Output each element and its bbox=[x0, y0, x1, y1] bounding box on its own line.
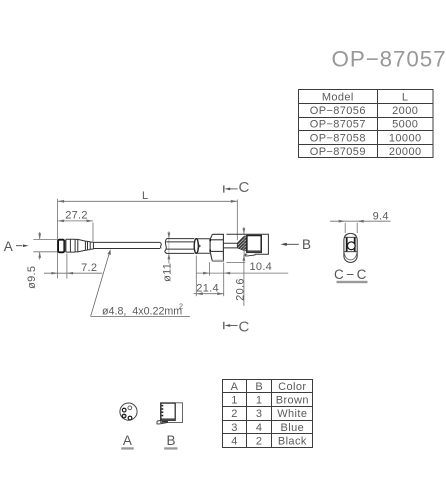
svg-text:9.4: 9.4 bbox=[373, 210, 389, 222]
svg-text:OP−87059: OP−87059 bbox=[310, 146, 366, 158]
svg-text:2: 2 bbox=[231, 408, 238, 420]
view A pin 3 bbox=[122, 414, 126, 418]
svg-text:20.6: 20.6 bbox=[235, 278, 247, 301]
svg-text:Color: Color bbox=[278, 381, 306, 393]
view B outer housing bbox=[161, 403, 183, 423]
wiring table grid bbox=[223, 380, 313, 448]
svg-text:Black: Black bbox=[278, 436, 307, 448]
model table grid bbox=[299, 90, 434, 158]
svg-text:21.4: 21.4 bbox=[196, 282, 219, 294]
svg-text:ø9.5: ø9.5 bbox=[26, 266, 38, 289]
svg-text:A: A bbox=[231, 381, 239, 393]
svg-text:C−C: C−C bbox=[334, 267, 369, 282]
cable break and bushing tube (dia 11) bbox=[165, 239, 210, 254]
svg-text:1: 1 bbox=[256, 395, 263, 407]
section marker C bottom bbox=[224, 322, 238, 329]
svg-text:4: 4 bbox=[256, 422, 263, 434]
view A pin 2 bbox=[122, 408, 126, 412]
shaft into plug bbox=[223, 243, 237, 248]
hex body bbox=[210, 234, 223, 261]
connector A taper bbox=[78, 239, 86, 252]
svg-text:A: A bbox=[123, 433, 132, 448]
svg-text:1: 1 bbox=[231, 395, 238, 407]
connector A strain relief rings bbox=[85, 241, 93, 250]
svg-text:2: 2 bbox=[179, 302, 183, 311]
svg-text:OP−87057: OP−87057 bbox=[332, 47, 446, 72]
svg-text:2000: 2000 bbox=[392, 105, 418, 117]
section cable circle bbox=[347, 242, 355, 250]
view B plug body bbox=[161, 403, 175, 420]
svg-text:27.2: 27.2 bbox=[65, 209, 88, 221]
svg-text:10.4: 10.4 bbox=[249, 261, 272, 273]
svg-text:OP−87056: OP−87056 bbox=[310, 105, 366, 117]
section marker C top bbox=[224, 185, 238, 192]
svg-text:4: 4 bbox=[231, 436, 238, 448]
svg-text:20000: 20000 bbox=[389, 146, 422, 158]
connector A head (knurled nut) bbox=[58, 240, 64, 253]
hex bottom shading bbox=[212, 260, 223, 261]
svg-text:5000: 5000 bbox=[392, 119, 418, 131]
svg-text:3: 3 bbox=[231, 422, 238, 434]
cable tip cone bbox=[197, 243, 200, 248]
dimension L bbox=[58, 199, 238, 279]
section C-C outer shell bbox=[344, 234, 357, 263]
svg-text:White: White bbox=[277, 408, 307, 420]
svg-text:B: B bbox=[302, 237, 311, 252]
svg-text:ø11: ø11 bbox=[161, 263, 173, 282]
dimension dia 9.5 bbox=[33, 232, 57, 260]
dimension 20.6 bbox=[226, 227, 245, 306]
view A pin 4 bbox=[128, 416, 132, 420]
dimension 10.4 bbox=[196, 262, 288, 276]
svg-text:L: L bbox=[142, 190, 148, 202]
svg-text:Blue: Blue bbox=[280, 422, 304, 434]
plug shell outline bbox=[226, 234, 268, 256]
svg-text:L: L bbox=[402, 91, 409, 103]
wiring table text bbox=[231, 381, 309, 448]
svg-text:10000: 10000 bbox=[389, 132, 422, 144]
svg-text:Brown: Brown bbox=[276, 395, 309, 407]
svg-text:3: 3 bbox=[256, 408, 263, 420]
dimension 9.4 (section) bbox=[330, 221, 391, 233]
section crimp walls bbox=[346, 238, 348, 252]
svg-text:C: C bbox=[238, 179, 249, 196]
dimension dia 11 bbox=[168, 232, 170, 264]
dimension 7.2 bbox=[44, 254, 102, 279]
model table text bbox=[310, 91, 422, 158]
bushing end ellipse bbox=[194, 239, 198, 254]
svg-text:ø4.8, 4x0.22mm: ø4.8, 4x0.22mm bbox=[102, 306, 182, 318]
view A face circle bbox=[120, 403, 137, 420]
dimension 27.2 bbox=[58, 221, 93, 241]
svg-text:Model: Model bbox=[322, 91, 354, 103]
plug body (dark) bbox=[247, 236, 261, 253]
svg-text:7.2: 7.2 bbox=[81, 262, 97, 274]
svg-text:2: 2 bbox=[256, 436, 263, 448]
svg-text:C: C bbox=[238, 318, 249, 335]
view A pin 1 bbox=[128, 406, 132, 410]
view B contacts bbox=[162, 405, 164, 416]
svg-text:OP−87058: OP−87058 bbox=[310, 132, 366, 144]
cable segment (dia 4.8) bbox=[93, 242, 161, 248]
section crimp band lines bbox=[344, 236, 357, 238]
plug latch bbox=[245, 254, 255, 256]
svg-text:B: B bbox=[166, 433, 175, 448]
hex corner marks bbox=[209, 239, 211, 241]
dimension 21.4 bbox=[194, 256, 225, 297]
view B latch bbox=[157, 421, 168, 424]
svg-text:OP−87057: OP−87057 bbox=[310, 119, 366, 131]
svg-text:B: B bbox=[255, 381, 263, 393]
leader dia 4.8 cable spec bbox=[91, 251, 190, 317]
connector A collar bbox=[64, 240, 66, 252]
svg-text:A: A bbox=[4, 239, 13, 254]
connector A body bbox=[66, 239, 78, 252]
